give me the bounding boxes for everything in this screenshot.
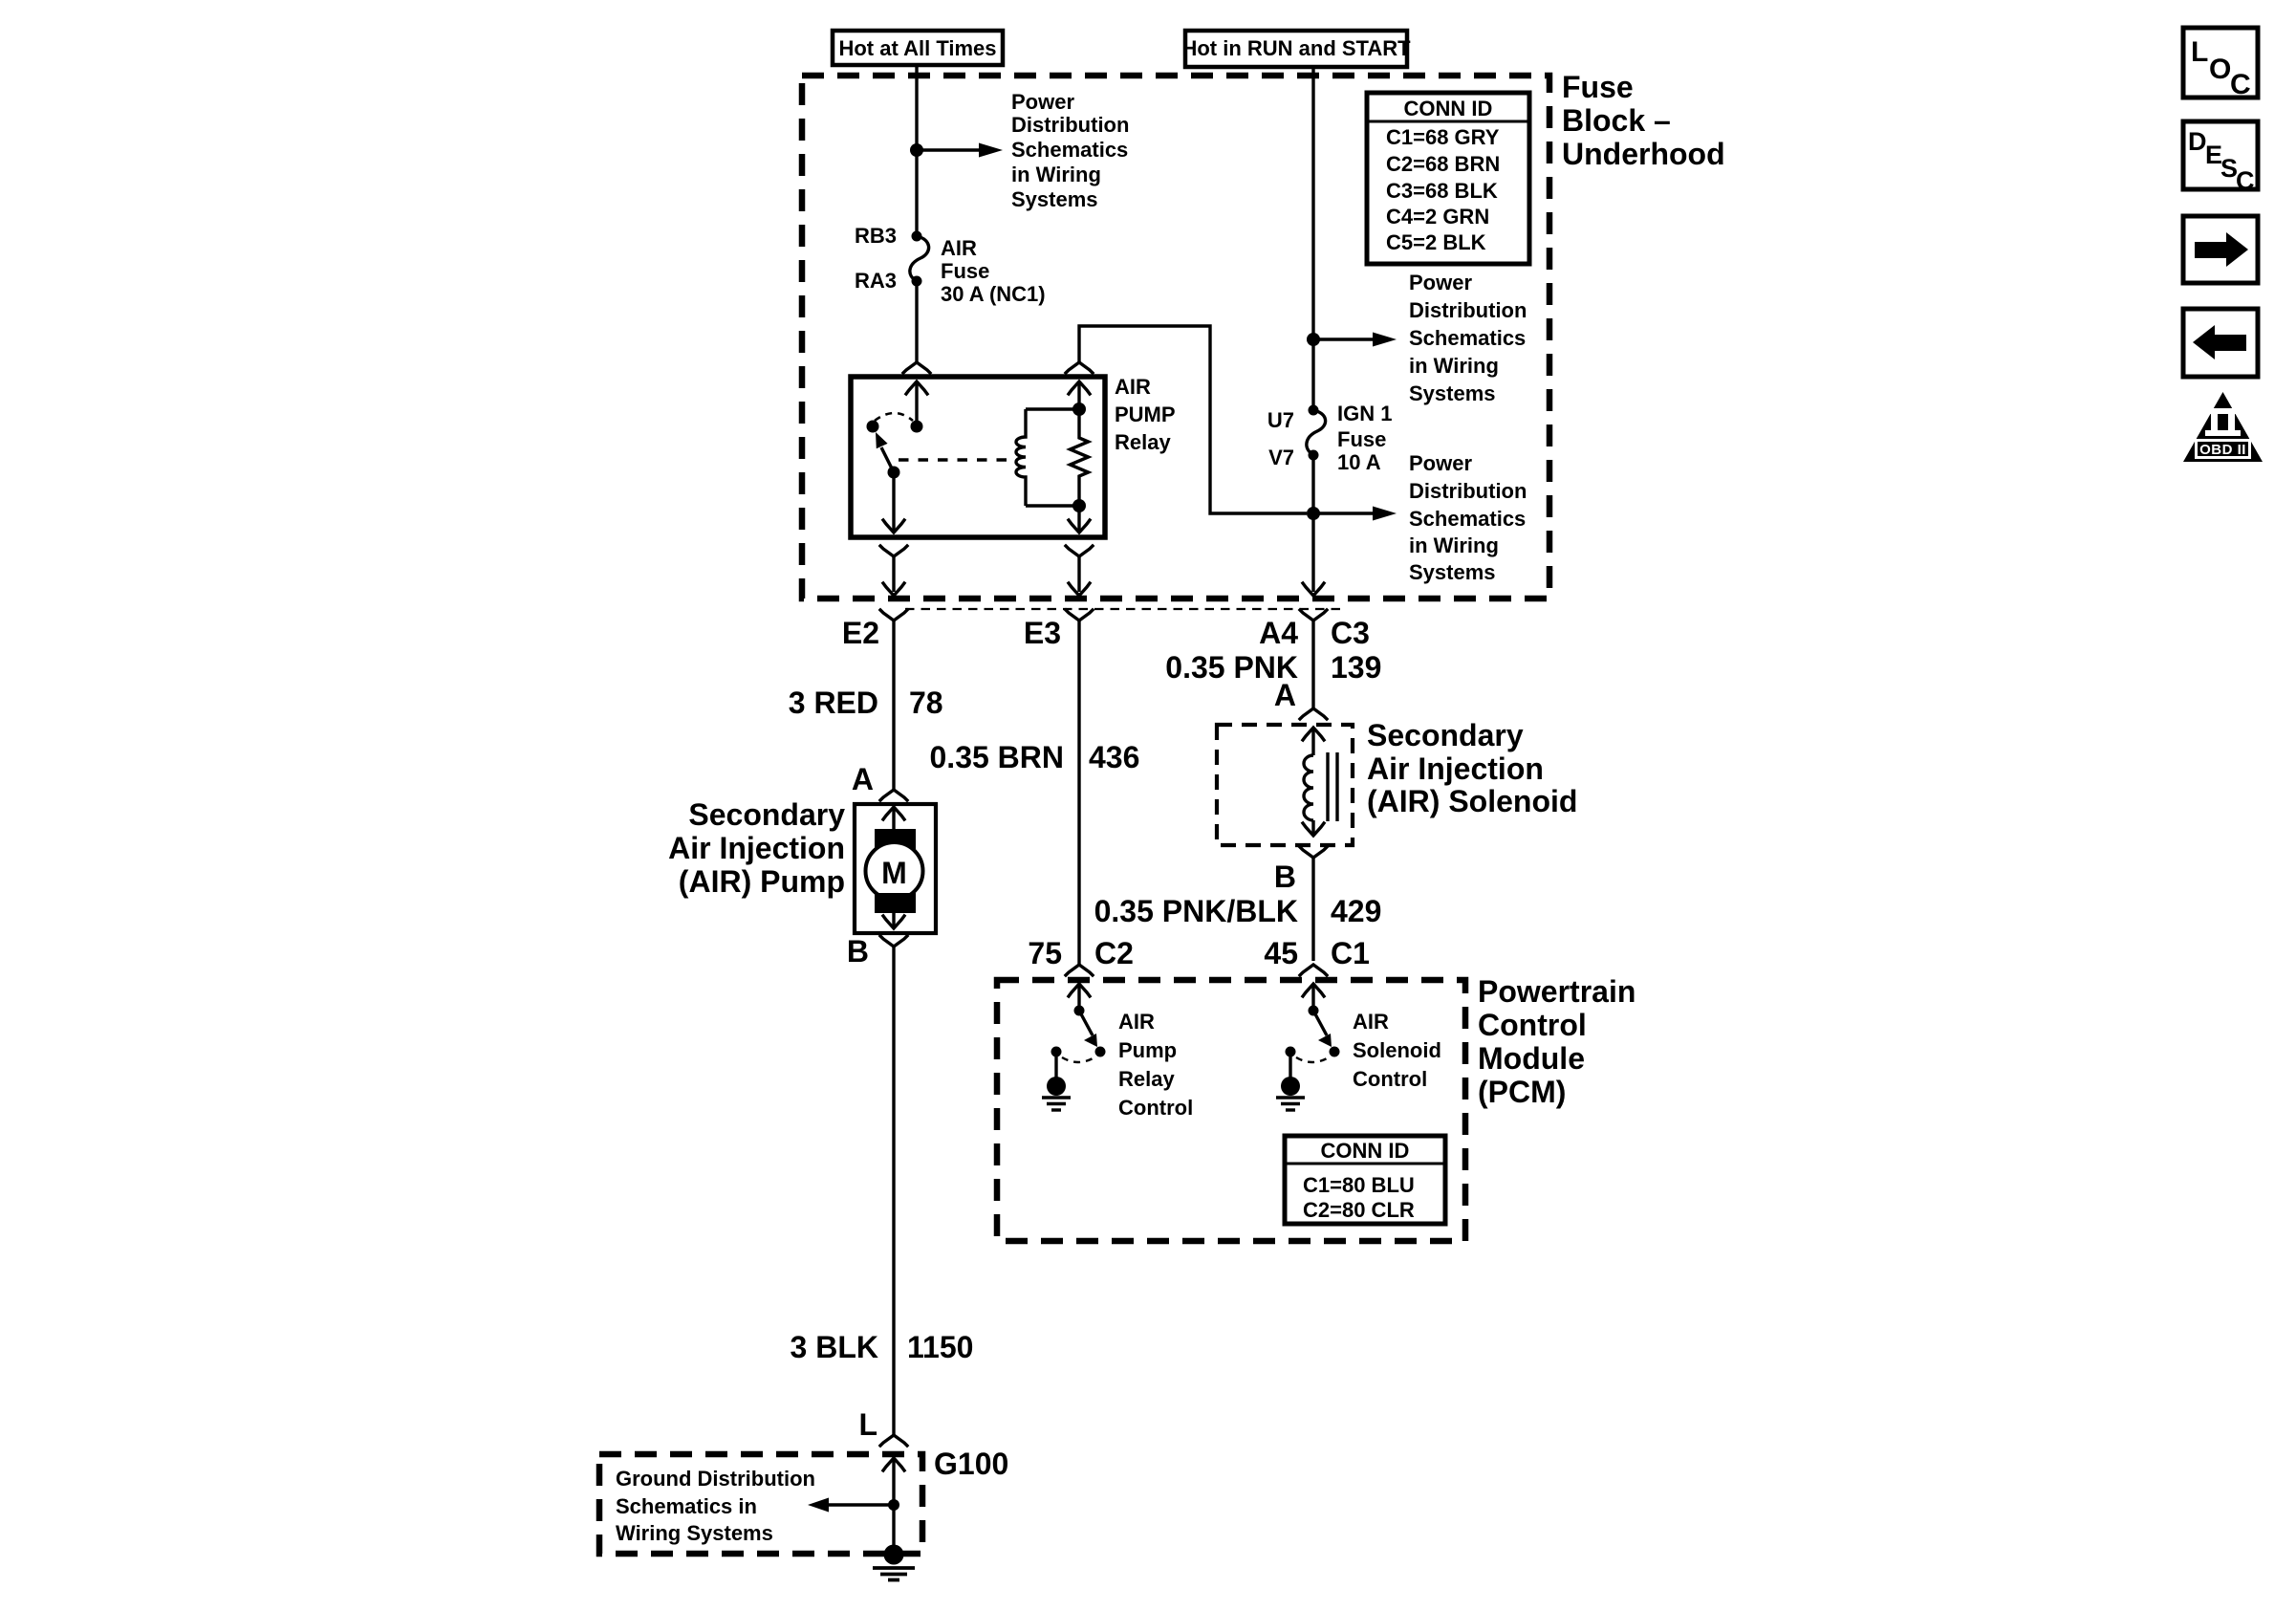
solenoid: Secondary Air Injection (AIR) Solenoid dashed case (1217, 725, 1353, 845)
wire: pointer to Power Distribution Schematics (upper right) (1313, 337, 1373, 340)
solenoid core lines (1328, 752, 1337, 821)
svg-text:75: 75 (1028, 936, 1062, 970)
connector: female half at pump terminal B (880, 936, 907, 1435)
svg-text:3 RED: 3 RED (789, 686, 878, 720)
svg-text:Block –: Block – (1562, 103, 1671, 138)
svg-text:C2=68 BRN: C2=68 BRN (1386, 152, 1500, 176)
svg-text:Hot in RUN and START: Hot in RUN and START (1181, 36, 1411, 60)
svg-text:Module: Module (1478, 1041, 1585, 1076)
node: coil/resistor top (1072, 403, 1086, 416)
CONN ID table (fuse block) (1367, 93, 1529, 264)
svg-text:10 A: 10 A (1337, 450, 1381, 474)
label: terminals 45 C1 at PCM (1264, 936, 1370, 970)
motor brush (top) (875, 829, 916, 849)
connector: female half above PCM pin 45 (1300, 965, 1327, 975)
connector: female half at solenoid terminal A (1300, 708, 1327, 719)
node: junction above IGN 1 fuse (1307, 333, 1320, 346)
wire: relay coil feed from IGN 1 fuse node (1079, 326, 1307, 513)
svg-text:CONN ID: CONN ID (1321, 1139, 1410, 1163)
label: AIR PUMP Relay (1115, 375, 1176, 454)
ground: PCM internal ground (solenoid driver) (1276, 1052, 1305, 1110)
svg-text:Power: Power (1011, 90, 1074, 114)
label: AIR Fuse 30 A (NC1) (941, 236, 1046, 306)
svg-text:Powertrain: Powertrain (1478, 974, 1635, 1009)
svg-text:in Wiring: in Wiring (1409, 354, 1499, 378)
svg-text:C1=68 GRY: C1=68 GRY (1386, 125, 1500, 149)
svg-text:C1=80 BLU: C1=80 BLU (1303, 1173, 1415, 1197)
svg-text:M: M (881, 856, 907, 890)
icon: OBD II (2183, 392, 2263, 462)
svg-text:CONN ID: CONN ID (1404, 97, 1493, 120)
svg-text:Secondary: Secondary (688, 797, 845, 832)
svg-text:Control: Control (1353, 1067, 1427, 1091)
connector: female half below relay pin (85) (1066, 546, 1093, 592)
svg-text:V7: V7 (1268, 446, 1294, 469)
svg-text:Systems: Systems (1011, 187, 1098, 211)
relay: mechanical link to coil (dashed) (899, 458, 1011, 461)
ground box: Ground Distribution dashed outline (599, 1454, 922, 1554)
PCM driver: AIR Pump Relay Control switch (1051, 1006, 1106, 1063)
label: AIR Pump Relay Control (1118, 1010, 1193, 1120)
connector: female half terminal E2 (880, 610, 907, 790)
PCM: Powertrain Control Module dashed case (997, 980, 1465, 1241)
svg-text:E3: E3 (1024, 616, 1061, 650)
connector: male arrow into PCM pin 45 (1303, 984, 1324, 1011)
svg-text:1150: 1150 (907, 1330, 973, 1364)
svg-text:45: 45 (1264, 936, 1298, 970)
relay AIR PUMP Relay: case (851, 377, 1105, 537)
motor brush (bottom) (875, 893, 916, 913)
svg-text:436: 436 (1089, 740, 1139, 774)
motor M1: Secondary Air Injection (AIR) Pump case (855, 804, 936, 933)
svg-text:C1: C1 (1331, 936, 1370, 970)
icon: DESC (2183, 121, 2258, 195)
svg-text:E2: E2 (842, 616, 879, 650)
wire: IGN 1 fuse output down (1311, 455, 1314, 592)
connector: male arrow at fuse block terminal C3-A4 (1303, 583, 1324, 596)
svg-text:Distribution: Distribution (1011, 113, 1129, 137)
label: wire 0.35 PNK 139 (1165, 650, 1381, 685)
solenoid coil winding (1304, 755, 1313, 820)
label: Power Distribution Schematics in Wiring Systems (top left) (1011, 90, 1129, 211)
connector: male arrow at fuse block terminal E2 (883, 583, 904, 596)
wire: battery feed from Hot at All Times down to AIR fuse (915, 65, 918, 236)
svg-text:C5=2 BLK: C5=2 BLK (1386, 230, 1486, 254)
svg-text:0.35 BRN: 0.35 BRN (930, 740, 1065, 774)
connector: male arrow into relay pin (30) (906, 381, 927, 426)
svg-text:Solenoid: Solenoid (1353, 1038, 1441, 1062)
ground G100 symbol (873, 1545, 915, 1580)
svg-text:B: B (847, 934, 869, 969)
relay switch: movable blade with arrowhead (876, 432, 894, 472)
svg-text:O: O (2209, 54, 2231, 85)
svg-text:Schematics in: Schematics in (616, 1494, 757, 1518)
wire: AIR fuse output down to relay connector (915, 281, 918, 362)
label: AIR Solenoid Control (1353, 1010, 1441, 1091)
connector: female half above PCM pin 75 (1066, 965, 1093, 975)
svg-text:Power: Power (1409, 271, 1472, 294)
connector: male arrow out of relay pin (85) (1069, 520, 1090, 533)
svg-text:L: L (858, 1407, 877, 1442)
svg-text:in Wiring: in Wiring (1409, 533, 1499, 557)
label: Powertrain Control Module (PCM) (1478, 974, 1635, 1109)
icon: forward arrow (2183, 216, 2258, 283)
connector: male arrow at fuse block terminal E3 (1069, 583, 1090, 596)
svg-text:C: C (2236, 166, 2255, 195)
svg-text:Power: Power (1409, 451, 1472, 475)
wire: pointer to Power Distribution Schematics (lower right) (1313, 512, 1373, 514)
svg-text:B: B (1274, 860, 1296, 894)
connector: male arrow out of relay pin (87) (883, 520, 904, 533)
svg-text:Fuse: Fuse (1337, 427, 1386, 451)
svg-text:AIR: AIR (1353, 1010, 1389, 1034)
label: Power Distribution Schematics in Wiring Systems (upper right) (1409, 271, 1527, 405)
svg-text:3 BLK: 3 BLK (791, 1330, 878, 1364)
fuse block (Fuse Block - Underhood) dashed outline (802, 76, 1549, 599)
svg-text:U7: U7 (1267, 408, 1294, 432)
svg-text:30 A (NC1): 30 A (NC1) (941, 282, 1046, 306)
label: IGN 1 Fuse 10 A (1337, 402, 1392, 474)
svg-text:RA3: RA3 (855, 269, 897, 293)
node: junction at G100 (888, 1499, 899, 1511)
wire: relay switch output to case edge (87) (892, 472, 895, 532)
svg-text:AIR: AIR (941, 236, 977, 260)
label: Ground Distribution Schematics in Wiring Systems (616, 1467, 815, 1545)
svg-text:Control: Control (1478, 1008, 1587, 1042)
connector line: thin dashed C-line under fuse block (905, 608, 1343, 610)
fuse IGN 1 10 A, terminals U7/V7 (1307, 405, 1326, 461)
wire: pointer to Ground Distribution Schematics (808, 1498, 894, 1513)
svg-text:OBD II: OBD II (2199, 442, 2246, 458)
wire: ignition feed from Hot in RUN and START (1311, 65, 1314, 410)
label: wire 3 RED 78 (789, 686, 943, 720)
svg-text:(AIR) Pump: (AIR) Pump (679, 864, 845, 899)
label: wire 3 BLK 1150 (791, 1330, 974, 1364)
svg-text:AIR: AIR (1115, 375, 1151, 399)
svg-text:A: A (1274, 678, 1296, 712)
svg-text:Systems: Systems (1409, 381, 1496, 405)
power label box: Hot at All Times (833, 31, 1003, 65)
relay switch: pivot node (888, 467, 900, 479)
relay switch: travel arc (dashed) (875, 413, 913, 421)
connector: male arrow into solenoid terminal A (1303, 728, 1324, 755)
label: wire 0.35 BRN 436 (930, 740, 1140, 774)
connector: female half at solenoid terminal B (1300, 847, 1327, 961)
label: Power Distribution Schematics in Wiring Systems (lower right) (1409, 451, 1527, 584)
svg-text:Air Injection: Air Injection (668, 831, 845, 865)
svg-text:Schematics: Schematics (1011, 138, 1128, 162)
svg-text:RB3: RB3 (855, 224, 897, 248)
connector: female half at relay pin (30) (903, 362, 930, 373)
connector: male arrow into relay pin (86) (1069, 381, 1090, 409)
connector: male arrow into pump terminal A (883, 807, 904, 830)
svg-text:C: C (2230, 69, 2251, 100)
svg-text:(AIR) Solenoid: (AIR) Solenoid (1367, 784, 1577, 818)
svg-text:C2: C2 (1094, 936, 1134, 970)
connector: female half at pump terminal A (880, 790, 907, 800)
connector: male arrow into ground block (883, 1458, 904, 1546)
svg-text:139: 139 (1331, 650, 1381, 685)
svg-text:IGN 1: IGN 1 (1337, 402, 1392, 425)
svg-text:AIR: AIR (1118, 1010, 1155, 1034)
svg-text:Fuse: Fuse (1562, 70, 1634, 104)
resistor: relay suppression resistor (1071, 409, 1089, 506)
svg-text:C4=2 GRN: C4=2 GRN (1386, 205, 1489, 229)
power label box: Hot in RUN and START (1181, 31, 1411, 67)
svg-text:Distribution: Distribution (1409, 479, 1527, 503)
relay switch: fixed contact (867, 421, 879, 433)
icon: back arrow (2183, 309, 2258, 377)
relay coil winding (1016, 409, 1079, 506)
connector: female half terminal C3-A4 (1300, 610, 1327, 708)
node: coil/resistor bottom (1072, 499, 1086, 512)
svg-text:Hot at All Times: Hot at All Times (838, 36, 996, 60)
connector: female half above relay pin (86) (1066, 362, 1093, 373)
connector: male arrow into PCM pin 75 (1069, 984, 1090, 1011)
svg-text:0.35 PNK/BLK: 0.35 PNK/BLK (1094, 894, 1298, 928)
svg-text:Control: Control (1118, 1096, 1193, 1120)
connector: male arrow out of solenoid terminal B (1303, 820, 1324, 836)
svg-text:C3=68 BLK: C3=68 BLK (1386, 179, 1498, 203)
svg-text:in Wiring: in Wiring (1011, 163, 1101, 186)
svg-text:PUMP: PUMP (1115, 403, 1176, 426)
motor armature circle with M (866, 842, 923, 900)
node: junction on battery feed (910, 143, 923, 157)
svg-text:Underhood: Underhood (1562, 137, 1725, 171)
svg-text:Systems: Systems (1409, 560, 1496, 584)
connector: male arrow out of pump terminal B (883, 913, 904, 928)
svg-text:Ground Distribution: Ground Distribution (616, 1467, 815, 1491)
svg-text:429: 429 (1331, 894, 1381, 928)
label: wire 0.35 PNK/BLK 429 (1094, 894, 1382, 928)
svg-text:Relay: Relay (1118, 1067, 1175, 1091)
label: Fuse Block - Underhood (1562, 70, 1725, 171)
svg-text:C3: C3 (1331, 616, 1370, 650)
wire: relay coil output to case edge (85) (1077, 506, 1080, 532)
svg-text:Schematics: Schematics (1409, 507, 1526, 531)
svg-text:Wiring Systems: Wiring Systems (616, 1521, 773, 1545)
fuse AIR 30 A (NC1), terminals RB3/RA3 (910, 231, 929, 287)
svg-text:Secondary: Secondary (1367, 718, 1524, 752)
connector: female half below relay pin (87) (880, 546, 907, 592)
svg-text:(PCM): (PCM) (1478, 1075, 1566, 1109)
svg-text:78: 78 (909, 686, 943, 720)
icon: LOC (2183, 28, 2258, 100)
svg-text:Fuse: Fuse (941, 259, 989, 283)
svg-text:Schematics: Schematics (1409, 326, 1526, 350)
svg-text:Pump: Pump (1118, 1038, 1177, 1062)
relay switch: common feed node (911, 421, 923, 433)
label: terminals 75 C2 at PCM (1028, 936, 1134, 970)
CONN ID table (PCM) (1285, 1136, 1445, 1224)
label: Secondary Air Injection (AIR) Pump (668, 797, 845, 899)
svg-text:D: D (2188, 127, 2207, 156)
svg-text:Distribution: Distribution (1409, 298, 1527, 322)
svg-text:Air Injection: Air Injection (1367, 751, 1544, 786)
svg-text:C2=80 CLR: C2=80 CLR (1303, 1198, 1415, 1222)
PCM driver: AIR Solenoid Control switch (1286, 1006, 1340, 1063)
label: Secondary Air Injection (AIR) Solenoid (1367, 718, 1577, 818)
connector: female half at ground terminal L (880, 1435, 907, 1446)
svg-text:G100: G100 (934, 1447, 1008, 1481)
connector: female half terminal E3 (1066, 610, 1093, 965)
svg-text:L: L (2191, 36, 2208, 68)
wire: pointer to Power Distribution Schematics (top left) (917, 148, 979, 151)
node: junction below IGN 1 fuse (1307, 507, 1320, 520)
svg-text:A4: A4 (1259, 616, 1298, 650)
svg-text:A: A (852, 762, 874, 796)
ground: PCM internal ground (pump relay driver) (1042, 1052, 1071, 1110)
svg-text:Relay: Relay (1115, 430, 1171, 454)
